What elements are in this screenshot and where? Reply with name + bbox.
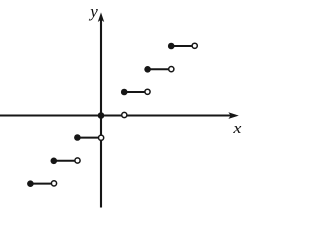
closed endpoint (1,1) bbox=[121, 89, 128, 96]
step segment n=1 bbox=[124, 91, 147, 93]
x-axis arrowhead bbox=[228, 112, 238, 119]
open endpoint (1,0) bbox=[122, 112, 127, 117]
y-axis bbox=[100, 20, 102, 208]
open endpoint (4,3) bbox=[192, 43, 197, 48]
step segment n=3 bbox=[171, 45, 195, 47]
closed endpoint (2,2) bbox=[144, 66, 151, 73]
step segment n=-3 bbox=[30, 183, 54, 185]
closed endpoint (3,3) bbox=[168, 43, 175, 50]
closed endpoint (-2,-2) bbox=[51, 158, 58, 165]
open endpoint (0,-1) bbox=[99, 135, 104, 140]
closed endpoint (0,0) bbox=[98, 112, 105, 119]
svg-text:x: x bbox=[232, 121, 242, 137]
svg-text:y: y bbox=[88, 2, 98, 21]
open endpoint (-2,-3) bbox=[51, 181, 56, 186]
step segment n=2 bbox=[148, 68, 172, 70]
step segment n=-1 bbox=[77, 137, 101, 139]
x-axis bbox=[0, 114, 231, 116]
closed endpoint (-3,-3) bbox=[27, 180, 34, 187]
open endpoint (2,1) bbox=[145, 89, 150, 94]
step segment n=-2 bbox=[54, 160, 78, 162]
step segment n=0 bbox=[101, 115, 124, 117]
open endpoint (-1,-2) bbox=[75, 158, 80, 163]
closed endpoint (-1,-1) bbox=[74, 134, 81, 141]
y-axis arrowhead bbox=[98, 12, 104, 22]
open endpoint (3,2) bbox=[169, 67, 174, 72]
